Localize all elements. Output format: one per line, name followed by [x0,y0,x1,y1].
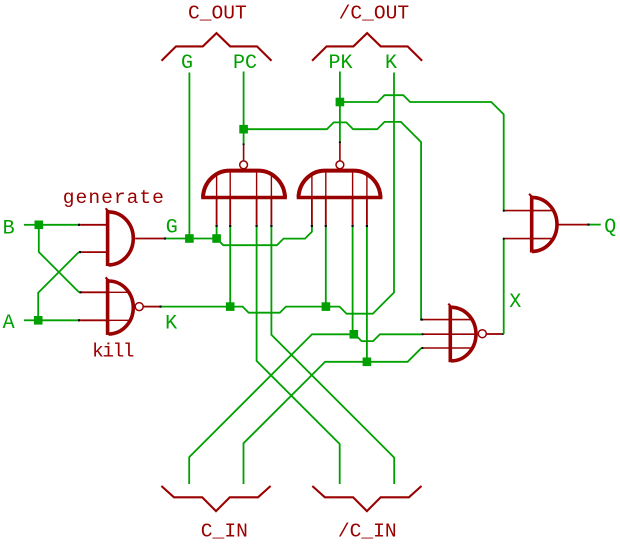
svg-text:PC: PC [233,52,257,75]
wire K riser to top label K (hop path) [329,73,394,314]
svg-text:G: G [181,52,193,75]
pin tip black [78,224,80,226]
svg-text:kill: kill [92,340,134,362]
nand dome1 bubble [240,161,248,169]
pin tip black [164,237,166,239]
and-gate generate body [106,210,110,266]
pin dome1 out stub [243,145,245,161]
pin kill in1 [82,291,107,293]
wire dome1 pin3 to /C_IN leg1 [257,227,340,484]
and-gate Q body [530,196,534,253]
pin Q in1 [503,210,505,212]
wire dome1 pin4 to /C_IN leg2 [271,227,394,484]
wire A crossover to generate in2 [38,252,79,317]
wire PC net to X in1 (hops) [247,122,422,320]
svg-text:generate: generate [63,187,165,209]
node S9 junction [350,330,359,339]
pin Q in2 [503,238,505,240]
bus ripper C_IN [161,486,270,511]
node dome1 pin1 junction [212,234,221,243]
bus ripper /C_IN [312,486,421,511]
wire S10 to X in3 [370,348,422,362]
wire dome2 pin2 drop to node S8 [325,227,327,304]
node PK junction [336,98,345,107]
pin tip black [159,306,161,308]
wire node G to dome1 pin1 [192,238,213,240]
nand-gate X body [449,306,453,362]
svg-text:K: K [165,313,177,336]
pin X in1 [420,319,423,321]
svg-text:G: G [166,217,178,240]
wire B crossover to kill in1 [39,228,79,292]
pin tip black [79,291,81,293]
node A junction [34,316,43,325]
pin dome2 input pins [311,176,313,198]
svg-text:A: A [3,312,15,335]
nand dome2 bubble [336,161,344,169]
svg-text:B: B [3,217,15,240]
svg-text:Q: Q [604,216,616,239]
svg-text:K: K [385,52,397,75]
wire PK label riser [339,72,341,100]
pin generate in1 [80,224,106,226]
node G junction [185,234,194,243]
wire dome1 pin2 drop to node K [229,227,231,304]
wire C_IN leg1 to node S9 / X in2 [189,334,352,484]
wire A stub [24,319,35,321]
svg-text:X: X [509,291,521,314]
wire dome2 pin4 drop to node S10 [366,227,368,359]
wire PK net to Q in1 (hop) [343,95,504,210]
pin tip black [78,319,80,321]
wire PC label riser [243,72,245,127]
pin tip black [587,224,589,226]
wire kill out to node K [162,306,228,308]
nand dome1 body [203,171,285,197]
pin kill out [144,306,160,308]
pin tips black [311,225,313,227]
pin kill in2 [80,319,106,321]
nand dome2 body [299,171,381,197]
pin dome1 input pins [216,176,218,198]
wire dome1 pin1 drop [216,227,218,236]
svg-text:C_IN: C_IN [201,521,248,543]
pin tips black [216,225,218,227]
pin dome2 out stub [339,143,341,161]
wire G to dome2 pin1 (hop) [220,227,312,245]
pin tip black [79,251,81,253]
wire S9 to X in2 (hop) [357,334,421,341]
bus ripper C_OUT [162,33,272,61]
wire K to node S8 (hop) [233,307,323,313]
node K junction [226,302,235,311]
pin Q out [558,224,587,226]
wire C_IN leg2 to node S10 / X in3 [244,362,364,484]
pin X out [486,333,501,335]
wire generate out to node G [166,238,186,240]
node S8 junction [322,302,331,311]
wire G label riser [188,73,190,236]
pin X in2 [422,333,424,335]
wire X out to Q in2 [503,239,505,334]
bubble X [478,330,486,338]
svg-text:/C_IN: /C_IN [338,521,397,543]
node S10 junction [363,358,372,367]
pin generate in2 [81,251,106,253]
wire dome2 pin3 drop to node S9 [352,227,354,331]
wire A to kill in2 [41,319,78,321]
wire B to generate in1 [42,224,78,226]
bus ripper /C_OUT [312,33,422,61]
pin generate out [135,238,164,240]
pin X in3 [421,347,423,349]
wire B stub [24,224,36,226]
node B junction [35,221,44,230]
nand-gate kill body [106,279,110,335]
bubble kill [135,303,143,311]
node PC junction [239,125,248,134]
wire Q out stub [590,224,601,226]
svg-text:C_OUT: C_OUT [188,3,247,25]
svg-text:/C_OUT: /C_OUT [339,2,410,24]
